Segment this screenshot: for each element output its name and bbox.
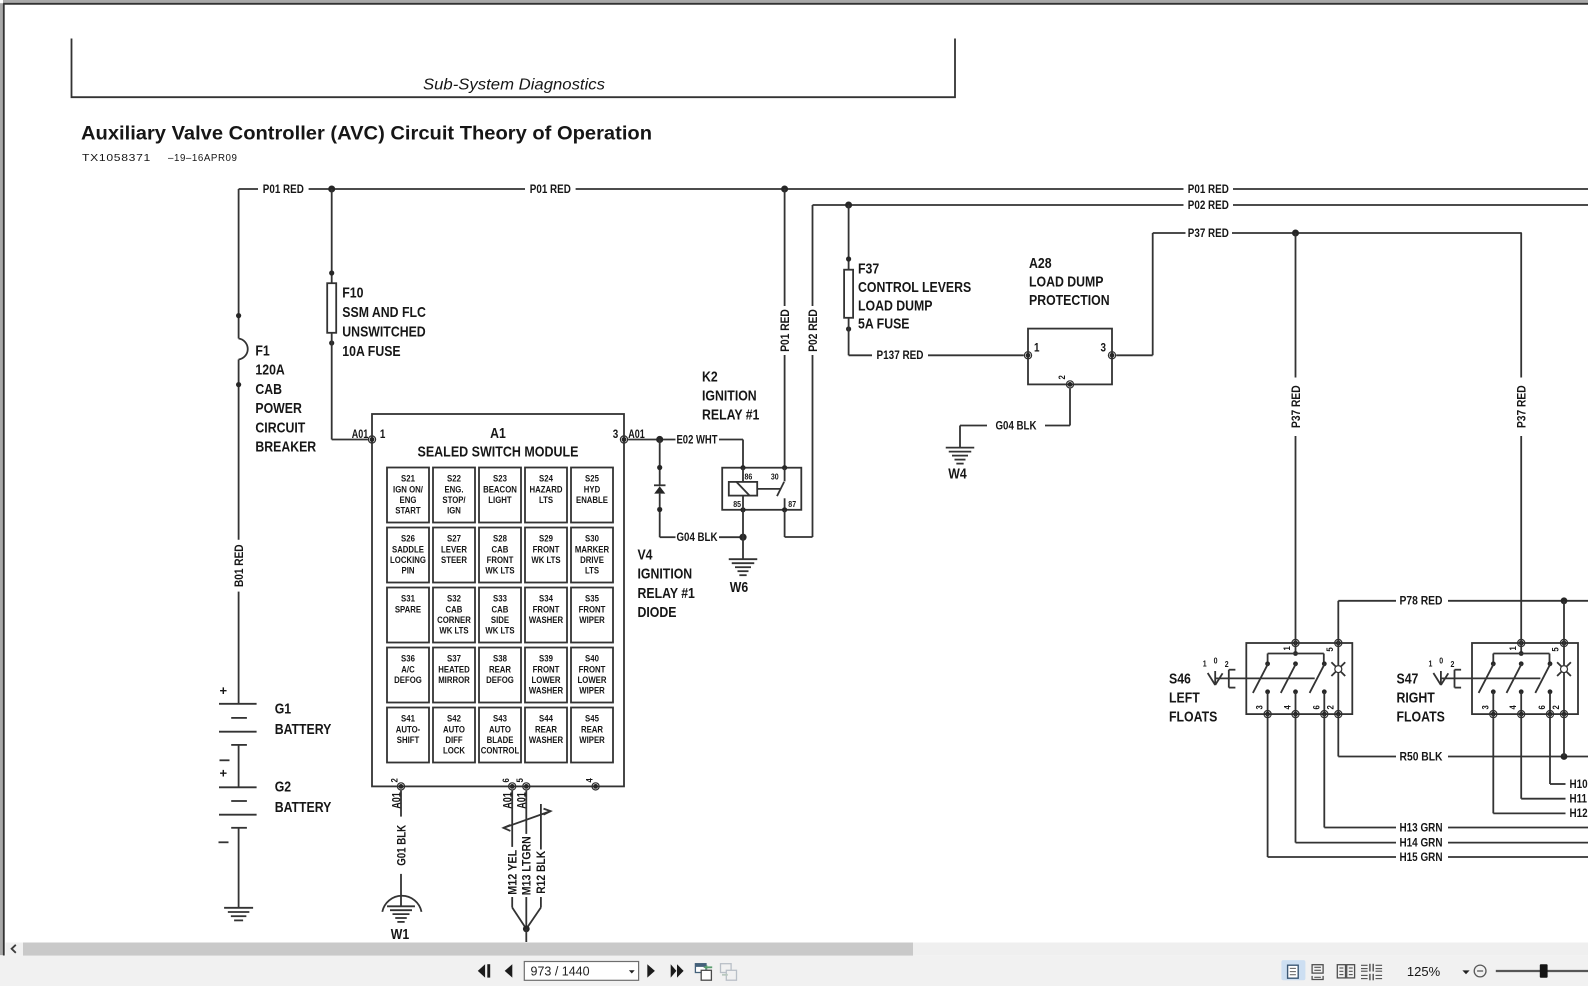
svg-text:CAB: CAB [492,544,509,555]
svg-text:P37 RED: P37 RED [1515,385,1529,428]
svg-text:IGNITION: IGNITION [638,566,693,583]
switch S22 [433,468,475,523]
svg-text:LOAD DUMP: LOAD DUMP [858,297,933,314]
svg-text:BATTERY: BATTERY [275,799,332,816]
junction P01/K2-30 [781,186,788,193]
toolbar continuous layout button [1312,965,1323,973]
svg-text:P02 RED: P02 RED [806,309,820,352]
viewer left border [0,3,3,955]
wire A28 pin2 to ground W4 [1069,389,1071,426]
svg-text:P01 RED: P01 RED [1188,182,1229,196]
svg-text:973 / 1440: 973 / 1440 [531,965,590,979]
switch S46 box [1246,643,1352,714]
svg-text:M13 LTGRN: M13 LTGRN [520,836,534,895]
toolbar zoom-out button [1474,965,1486,977]
svg-text:BEACON: BEACON [483,484,517,495]
svg-text:S33: S33 [493,594,507,605]
svg-text:CONTROL: CONTROL [481,745,520,756]
svg-text:POWER: POWER [255,400,302,417]
svg-text:R12 BLK: R12 BLK [534,851,548,894]
svg-text:Sub-System Diagnostics: Sub-System Diagnostics [423,77,605,94]
svg-text:CAB: CAB [255,381,282,398]
toolbar next-page button [647,964,655,977]
ground W4 symbol [946,447,975,449]
svg-text:H10: H10 [1570,777,1588,791]
svg-text:S38: S38 [493,654,507,665]
switch S32 [433,588,475,643]
svg-text:RELAY #1: RELAY #1 [702,407,759,424]
svg-text:2: 2 [1551,705,1562,709]
svg-text:K2: K2 [702,368,718,385]
junction harness node [523,926,530,933]
header rule box [72,39,956,98]
svg-text:UNSWITCHED: UNSWITCHED [342,324,426,341]
fuse F37 symbol [844,270,853,318]
svg-text:6: 6 [501,778,512,782]
svg-text:S21: S21 [401,474,415,485]
switch S41 [387,708,429,763]
junction above F10 [329,270,334,275]
wire H15 GRN (S46 pin3) [1267,714,1269,857]
svg-text:H15 GRN: H15 GRN [1400,850,1443,864]
switch S33 [479,588,521,643]
svg-text:S39: S39 [539,654,553,665]
svg-text:DEFOG: DEFOG [486,675,514,686]
switch S25 [571,468,613,523]
svg-text:2: 2 [390,778,401,782]
svg-text:S43: S43 [493,714,507,725]
svg-text:5: 5 [1325,647,1336,652]
switch S24 [525,468,567,523]
switch S31 [387,588,429,643]
toolbar last-page button [671,964,677,977]
wire R12 BLK [540,804,542,850]
svg-text:S36: S36 [401,654,415,665]
junction R50/S47 pin2 [1561,753,1568,760]
svg-text:WIPER: WIPER [579,615,605,626]
svg-text:CIRCUIT: CIRCUIT [255,419,305,436]
svg-text:S24: S24 [539,474,553,485]
S47 pin 1 [1518,639,1525,646]
svg-text:H12: H12 [1570,806,1588,820]
svg-text:10A FUSE: 10A FUSE [342,343,400,360]
wire G01 BLK [400,791,402,817]
wire P01 to F10 [331,189,333,283]
svg-text:ENABLE: ENABLE [576,495,608,506]
svg-text:AUTO: AUTO [489,724,511,735]
wire K2-87 to P02 [784,510,786,537]
svg-text:S25: S25 [585,474,599,485]
svg-text:5: 5 [1551,647,1562,652]
svg-text:P37 RED: P37 RED [1188,226,1229,240]
wire M12 YEL [511,791,513,847]
wire P37 to S46 pin1 [1295,233,1297,378]
svg-text:P02 RED: P02 RED [1188,198,1229,212]
junction below F10 [329,340,334,345]
switch S27 [433,528,475,583]
S47 contact bus [1493,653,1549,655]
svg-text:120A: 120A [255,362,285,379]
wire M13 LTGRN [525,791,527,834]
switch S44 [525,708,567,763]
S46 lamp [1335,666,1342,673]
svg-text:STOP/: STOP/ [442,495,465,506]
svg-text:LEFT: LEFT [1169,690,1200,707]
battery G1 [219,703,257,705]
wire K2-85 to ground W6 [742,510,744,537]
switch S29 [525,528,567,583]
svg-text:87: 87 [788,499,796,509]
svg-text:W1: W1 [391,926,409,943]
svg-text:MIRROR: MIRROR [438,675,470,686]
svg-text:IGN ON/: IGN ON/ [393,484,423,495]
svg-text:–19–16APR09: –19–16APR09 [168,152,238,164]
wire H14 GRN (S46 pin4) [1295,714,1297,843]
svg-text:1: 1 [1282,646,1293,651]
svg-text:ENG.: ENG. [445,484,464,495]
wire G1 minus to G2 plus [238,745,240,787]
svg-text:FRONT: FRONT [533,604,560,615]
wire harness to page edge [525,929,527,942]
junction P01/F10 [328,186,335,193]
svg-text:IGN: IGN [447,505,461,516]
switch S40 [571,648,613,703]
junction below F1 [236,382,241,387]
wire P02 to F37 [848,205,850,270]
S47 common actuator line [1442,677,1541,679]
svg-text:G2: G2 [275,779,291,796]
svg-text:2: 2 [1326,705,1337,709]
S47 pin 2 [1560,711,1567,718]
wire P78 RED [1337,601,1339,643]
svg-text:SADDLE: SADDLE [392,544,424,555]
svg-text:LOCK: LOCK [443,745,465,756]
S47 pin 6 [1546,711,1553,718]
module A28 box [1028,329,1112,385]
svg-text:1: 1 [1508,646,1519,651]
wire P01 RED top rail [239,188,258,190]
G2 minus sign [219,841,229,843]
svg-text:F10: F10 [342,285,363,302]
S46 pin 4 [1292,711,1299,718]
svg-text:RELAY #1: RELAY #1 [638,585,695,602]
svg-text:FLOATS: FLOATS [1169,709,1217,726]
svg-text:V4: V4 [638,546,654,563]
svg-text:2: 2 [1451,659,1455,669]
S46 contact blade pin 4 [1293,661,1298,666]
ground W1 symbol [387,905,415,907]
S46 pin 6 [1321,711,1328,718]
svg-text:LTS: LTS [585,565,599,576]
junction P37/S46 [1292,230,1299,237]
svg-text:+: + [220,766,228,781]
svg-text:S47: S47 [1397,670,1419,687]
wire H11 (S47 pin4) [1520,714,1522,799]
A28 pin 3 [1108,352,1115,359]
svg-text:ENG: ENG [400,495,417,506]
toolbar page number box [524,962,638,981]
svg-text:H11: H11 [1570,792,1588,806]
K2 pin 30 [782,465,787,470]
svg-text:WK LTS: WK LTS [531,555,560,566]
svg-text:LOWER: LOWER [578,675,607,686]
switch S34 [525,588,567,643]
toolbar continuous-facing layout button [1369,964,1371,972]
svg-text:86: 86 [745,472,753,482]
switch S45 [571,708,613,763]
junction P02/F37 [845,202,852,209]
fuse F10 symbol [327,283,336,333]
G1 minus sign [220,759,230,761]
svg-text:CONTROL LEVERS: CONTROL LEVERS [858,279,971,296]
svg-text:S40: S40 [585,654,599,665]
svg-text:PROTECTION: PROTECTION [1029,292,1110,309]
svg-text:WASHER: WASHER [529,735,563,746]
S46 pin 2 [1335,711,1342,718]
junction G04/W6 [739,534,746,541]
wire P37 to S47 pin1 [1520,233,1522,378]
switch S47 box [1472,643,1578,714]
wire H10 (S47 pin6) [1549,714,1551,784]
wire G04 BLK (V4 to K2-85) [660,536,676,538]
svg-text:H14 GRN: H14 GRN [1400,835,1443,849]
svg-text:1: 1 [1203,659,1207,669]
wire H13 GRN (S46 pin6) [1323,714,1325,827]
svg-text:WASHER: WASHER [529,615,563,626]
svg-text:4: 4 [1508,705,1519,710]
svg-text:REAR: REAR [489,664,511,675]
K2 coil [729,482,757,496]
svg-text:AUTO: AUTO [443,724,465,735]
toolbar facing layout button [1337,965,1345,978]
svg-text:SSM AND FLC: SSM AND FLC [342,304,426,321]
svg-text:H13 GRN: H13 GRN [1400,820,1443,834]
switch S42 [433,708,475,763]
svg-text:LTS: LTS [539,495,553,506]
toolbar single-page layout button (selected) [1281,960,1305,980]
svg-text:30: 30 [771,472,779,482]
switch S26 [387,528,429,583]
junction below F37 [846,326,851,331]
svg-text:S26: S26 [401,534,415,545]
svg-text:G01 BLK: G01 BLK [394,825,408,866]
svg-text:LOAD DUMP: LOAD DUMP [1029,274,1104,291]
svg-text:AUTO-: AUTO- [396,724,421,735]
svg-text:HAZARD: HAZARD [530,484,563,495]
svg-text:DIODE: DIODE [638,604,677,621]
S47 contact blade pin 6 [1548,661,1553,666]
svg-text:+: + [220,683,228,698]
svg-text:FLOATS: FLOATS [1397,709,1445,726]
K2 pin 87 [782,507,787,512]
svg-text:WK LTS: WK LTS [485,625,514,636]
svg-text:S42: S42 [447,714,461,725]
svg-text:S31: S31 [401,594,415,605]
svg-text:F37: F37 [858,261,879,278]
S47 pin 5 [1560,639,1567,646]
svg-text:1: 1 [380,427,386,441]
svg-text:3: 3 [1101,341,1107,355]
svg-text:DEFOG: DEFOG [394,675,422,686]
svg-text:S37: S37 [447,654,461,665]
svg-text:WASHER: WASHER [529,685,563,696]
wire S47 pin2 to R50 [1563,714,1565,756]
svg-text:BATTERY: BATTERY [275,721,332,738]
svg-text:0: 0 [1439,655,1443,665]
svg-text:CAB: CAB [446,604,463,615]
svg-text:LOWER: LOWER [532,675,561,686]
svg-text:WIPER: WIPER [579,735,605,746]
svg-text:SEALED SWITCH MODULE: SEALED SWITCH MODULE [418,443,579,460]
svg-text:125%: 125% [1407,964,1441,979]
svg-text:PIN: PIN [402,565,415,576]
S47 pin 3 [1490,711,1497,718]
svg-text:A/C: A/C [401,664,415,675]
switch S35 [571,588,613,643]
S46 common actuator line [1216,677,1315,679]
K2 contact [777,482,784,496]
svg-text:S28: S28 [493,534,507,545]
svg-text:P78 RED: P78 RED [1400,594,1443,608]
S47 contact blade pin 3 [1491,661,1496,666]
twisted-pair symbol [504,811,551,828]
svg-text:A1: A1 [490,425,506,442]
svg-text:FRONT: FRONT [487,555,514,566]
S46 bracket [1228,670,1230,688]
wire R50 BLK [1337,714,1339,756]
svg-text:WK LTS: WK LTS [485,565,514,576]
K2 pin 85 [740,507,745,512]
wire B01 RED battery feed [238,189,240,339]
svg-text:S23: S23 [493,474,507,485]
switch S39 [525,648,567,703]
switch S28 [479,528,521,583]
svg-text:P01 RED: P01 RED [530,182,571,196]
switch S23 [479,468,521,523]
toolbar attach-page icon (disabled) [721,964,732,973]
svg-text:S32: S32 [447,594,461,605]
svg-text:3: 3 [1480,705,1491,709]
ground W6 symbol [729,558,758,560]
wire P01 to K2 pin 30 [784,189,786,306]
wire P02 RED rail [813,204,1184,206]
svg-text:SIDE: SIDE [491,615,509,626]
svg-text:HEATED: HEATED [438,664,470,675]
wire P137 RED [848,318,850,356]
toolbar first-page button [478,964,485,977]
svg-text:DRIVE: DRIVE [580,555,604,566]
svg-text:LIGHT: LIGHT [488,495,512,506]
svg-text:S45: S45 [585,714,599,725]
svg-text:S30: S30 [585,534,599,545]
svg-text:LOCKING: LOCKING [390,555,426,566]
svg-text:85: 85 [733,499,741,509]
wire H12 (S47 pin3) [1492,714,1494,813]
junction P78/S47 pin5 [1561,597,1568,604]
svg-text:W6: W6 [730,579,748,596]
S46 pin 3 [1264,711,1271,718]
svg-text:P137 RED: P137 RED [877,348,924,362]
svg-text:CORNER: CORNER [437,615,471,626]
junction above F37 [846,256,851,261]
relay K2 box [722,468,801,510]
S47 bracket [1454,670,1456,688]
toolbar detach-page icon [695,964,706,973]
svg-text:FRONT: FRONT [533,544,560,555]
circuit breaker F1 symbol [239,339,248,360]
svg-text:W4: W4 [948,466,967,483]
svg-text:WIPER: WIPER [579,685,605,696]
svg-text:G04 BLK: G04 BLK [996,418,1037,432]
svg-text:5A FUSE: 5A FUSE [858,316,910,333]
svg-text:S35: S35 [585,594,599,605]
wire F10 to A1 pin1 [331,333,333,440]
junction above F1 [236,313,241,318]
svg-text:S46: S46 [1169,670,1191,687]
module A1 box [372,414,624,786]
junction E02/V4 [656,436,663,443]
S46 contact blade pin 6 [1322,661,1327,666]
A28 pin 1 [1024,352,1031,359]
wire P37 RED rail [1153,232,1186,234]
svg-text:Auxiliary Valve Controller (AV: Auxiliary Valve Controller (AVC) Circuit… [81,123,652,144]
toolbar zoom slider [1496,970,1588,972]
S47 lever symbol [1440,671,1442,685]
toolbar previous-page button [505,964,513,977]
wire P02 to K2 branch [812,205,814,306]
svg-text:SPARE: SPARE [395,604,421,615]
switch S21 [387,468,429,523]
svg-text:P37 RED: P37 RED [1289,385,1303,428]
S46 lever symbol [1214,671,1216,685]
svg-text:START: START [395,505,421,516]
svg-text:4: 4 [1283,705,1294,710]
svg-text:IGNITION: IGNITION [702,388,757,405]
S47 contact blade pin 4 [1519,661,1524,666]
svg-text:REAR: REAR [581,724,603,735]
svg-text:E02 WHT: E02 WHT [677,432,719,446]
svg-text:6: 6 [1311,705,1322,709]
svg-text:REAR: REAR [535,724,557,735]
S47 pin 4 [1518,711,1525,718]
battery ground symbol [224,907,253,909]
wire A28 pin3 to P37 [1116,354,1153,356]
svg-text:SHIFT: SHIFT [397,735,420,746]
svg-text:BLADE: BLADE [487,735,514,746]
S46 contact bus [1268,653,1324,655]
wire E02 WHT [628,439,675,441]
svg-text:S34: S34 [539,594,553,605]
svg-text:1: 1 [1034,341,1040,355]
battery G2 [219,786,257,788]
horizontal scrollbar [6,943,1588,956]
A28 pin 2 [1066,381,1073,388]
svg-text:6: 6 [1537,705,1548,709]
ground W1 shield arc [382,896,421,912]
svg-text:FRONT: FRONT [533,664,560,675]
svg-text:1: 1 [1429,659,1433,669]
svg-text:A01: A01 [352,427,369,441]
svg-text:DIFF: DIFF [445,735,462,746]
svg-text:A28: A28 [1029,255,1052,272]
svg-text:RIGHT: RIGHT [1397,690,1435,707]
switch S43 [479,708,521,763]
svg-text:2: 2 [1225,659,1229,669]
toolbar [0,956,1588,986]
S47 lamp [1561,666,1568,673]
svg-text:CAB: CAB [492,604,509,615]
svg-text:G04 BLK: G04 BLK [677,530,718,544]
